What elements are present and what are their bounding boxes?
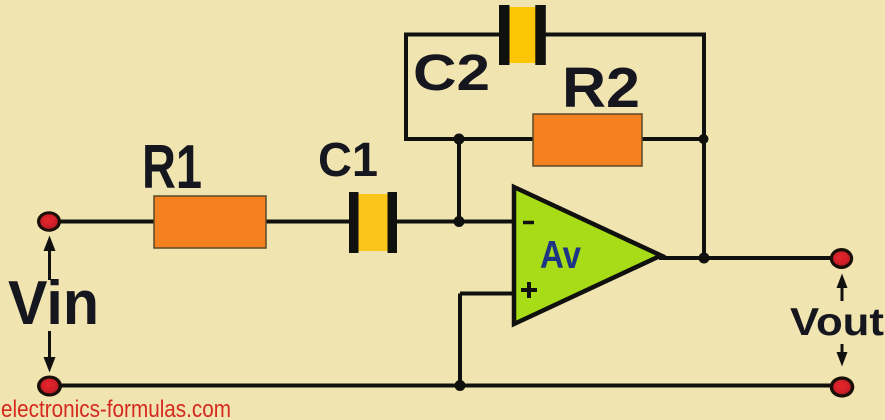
wire non-inverting input horizontal bbox=[460, 292, 516, 296]
terminal Vout top bbox=[830, 248, 853, 269]
svg-text:electronics-formulas.com: electronics-formulas.com bbox=[1, 396, 231, 420]
junction node at bottom rail bbox=[455, 380, 466, 391]
arrow Vout down bbox=[837, 344, 848, 367]
svg-text:Av: Av bbox=[540, 234, 581, 277]
junction node at inverting input bbox=[454, 216, 465, 227]
terminal Vin top bbox=[37, 211, 61, 232]
svg-text:Vin: Vin bbox=[8, 269, 99, 338]
arrow Vin up bbox=[44, 236, 56, 281]
terminal Vin bottom bbox=[37, 376, 62, 397]
wire left vertical of feedback loop bbox=[404, 33, 408, 142]
resistor R1 bbox=[154, 196, 266, 248]
svg-text:Vout: Vout bbox=[790, 301, 884, 344]
wire output bbox=[659, 256, 840, 260]
wire inverting node vertical bbox=[457, 139, 461, 222]
capacitor C2 bbox=[499, 5, 546, 65]
arrow Vout up bbox=[837, 274, 848, 302]
terminal Vout bottom bbox=[830, 376, 855, 397]
junction node at R2 wire and inverting branch bbox=[454, 134, 465, 145]
svg-text:C1: C1 bbox=[318, 134, 378, 187]
svg-text:R1: R1 bbox=[142, 133, 202, 202]
op-amp non-inverting pin mark + bbox=[521, 282, 537, 298]
op-amp inverting pin mark - bbox=[523, 221, 534, 225]
junction node at R2 wire and right vertical bbox=[699, 134, 709, 144]
wire non-inverting vertical to ground rail bbox=[458, 294, 462, 386]
wire top feedback (C2 branch) bbox=[406, 33, 704, 37]
wire input (Vin to op-amp inverting input) bbox=[50, 220, 517, 224]
wire right vertical of feedback loop bbox=[702, 33, 706, 259]
resistor R2 bbox=[533, 114, 642, 166]
wire bottom rail bbox=[50, 384, 843, 388]
op-amp U1 (Av) bbox=[514, 187, 661, 324]
arrow Vin down bbox=[44, 331, 56, 373]
svg-text:R2: R2 bbox=[562, 56, 640, 120]
svg-text:C2: C2 bbox=[413, 44, 490, 101]
wire R2 branch horizontal bbox=[404, 137, 706, 141]
capacitor C1 bbox=[349, 192, 397, 253]
junction node at output bbox=[699, 253, 710, 264]
